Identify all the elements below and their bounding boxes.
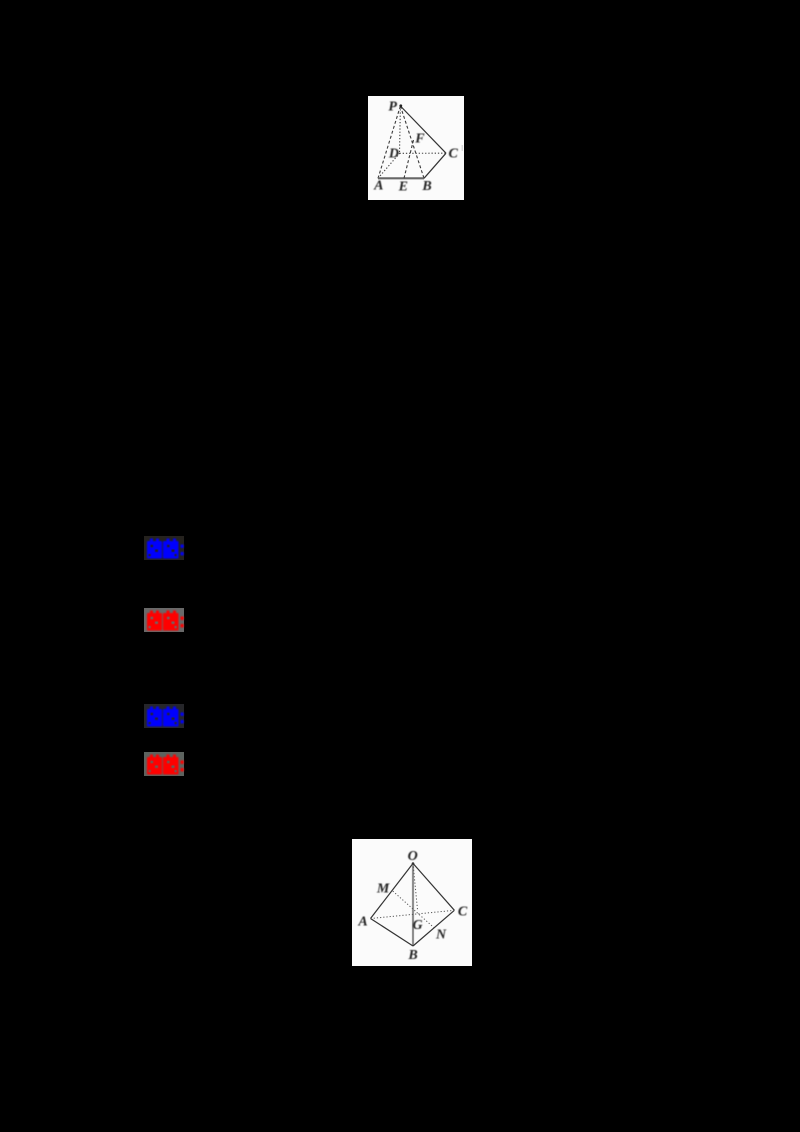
edge PB (hidden, dashed) bbox=[400, 106, 424, 178]
edge OC (solid) bbox=[413, 863, 454, 910]
edge PC (solid) bbox=[400, 106, 446, 153]
edge OA (solid) bbox=[371, 863, 414, 918]
svg-text:D: D bbox=[388, 146, 399, 161]
edge AC (hidden, dotted) bbox=[371, 910, 455, 918]
dot at vertex O bbox=[412, 862, 415, 865]
svg-text:B: B bbox=[407, 948, 417, 963]
blue label chip 1 bbox=[144, 536, 184, 560]
svg-text:P: P bbox=[388, 99, 397, 114]
red label chip 2 bbox=[144, 608, 184, 632]
svg-text:C: C bbox=[458, 905, 468, 920]
segment MN through G (dotted) bbox=[393, 891, 434, 927]
svg-text:O: O bbox=[408, 849, 418, 864]
svg-text:B: B bbox=[421, 179, 431, 194]
svg-text:A: A bbox=[373, 178, 383, 193]
edge PA (hidden, dashed) bbox=[378, 106, 400, 178]
red label chip 4 bbox=[144, 752, 184, 776]
dot at vertex P bbox=[399, 104, 402, 107]
edge AB (solid) bbox=[371, 919, 414, 947]
svg-text:C: C bbox=[449, 146, 459, 161]
svg-text:E: E bbox=[398, 179, 408, 194]
blue label chip 3 bbox=[144, 704, 184, 728]
edge BC (solid) bbox=[413, 910, 454, 946]
edge OB (solid, gray thick) bbox=[412, 863, 414, 946]
edge PD (hidden, dotted) bbox=[399, 106, 402, 153]
figure box 1: pyramid P-ABCD with E on AB, F on PB bbox=[368, 96, 464, 200]
segment OG (dotted) bbox=[413, 863, 418, 909]
edge BC (solid) bbox=[424, 153, 446, 178]
edge DC (hidden, dotted) bbox=[400, 152, 447, 154]
svg-text:A: A bbox=[357, 915, 367, 930]
svg-text:N: N bbox=[435, 928, 447, 943]
svg-text:G: G bbox=[412, 918, 422, 933]
figure box 2: tetrahedron O-ABC with M on OA, N on BC, centroid G bbox=[352, 839, 472, 966]
edge AB (solid, thick) bbox=[378, 177, 424, 179]
svg-text:F: F bbox=[414, 131, 425, 146]
segment EF (dashed) bbox=[404, 138, 414, 178]
svg-text:M: M bbox=[376, 882, 390, 897]
tick artifact right edge bbox=[462, 145, 463, 151]
edge AD (hidden, dotted) bbox=[378, 153, 400, 178]
